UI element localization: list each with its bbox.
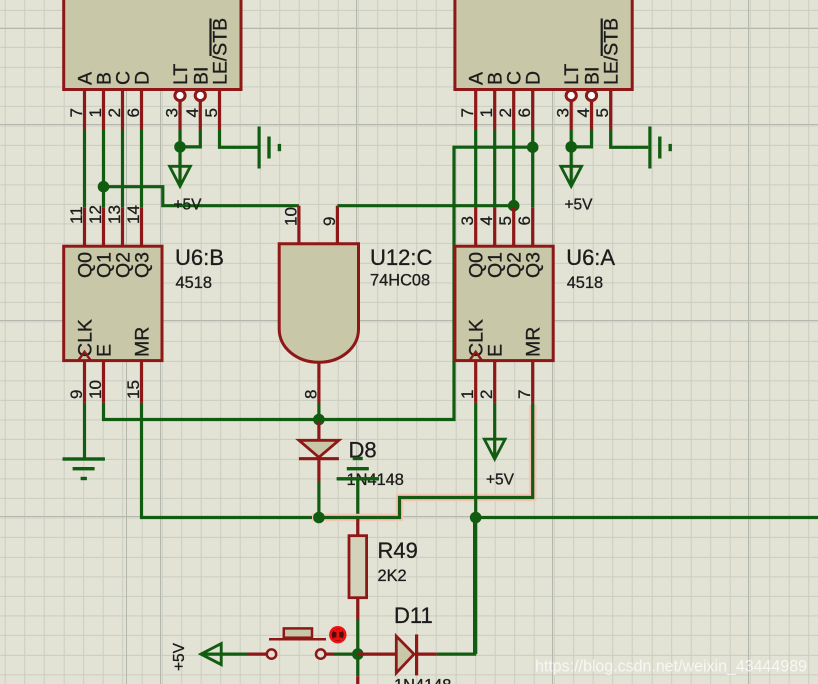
wire button to junction [333, 652, 358, 655]
svg-text:4: 4 [574, 108, 593, 117]
svg-text:8: 8 [301, 390, 320, 399]
svg-text:5: 5 [496, 216, 515, 225]
wire pin 5 to ground (left) [220, 130, 258, 148]
svg-text:LE/STB: LE/STB [601, 18, 623, 85]
wire pin 3 LT to +5V junction (right) [570, 130, 573, 147]
svg-text:7: 7 [458, 108, 477, 117]
svg-text:MR: MR [132, 327, 154, 357]
wire junction to right edge [476, 516, 818, 519]
push button component [248, 628, 333, 658]
svg-text:6: 6 [124, 108, 143, 117]
interactive actuator marker (red) [329, 626, 346, 643]
svg-text:4518: 4518 [176, 274, 212, 292]
svg-text:3: 3 [163, 108, 182, 117]
wire junction down to bottom edge [356, 654, 359, 684]
wire D11 cathode up to pin 1 net [437, 518, 475, 655]
junction on net Q2 (right) [508, 200, 520, 212]
svg-text:14: 14 [124, 205, 143, 224]
svg-text:+5V: +5V [565, 197, 594, 214]
ground symbol under U6:B pin 9 [63, 457, 105, 480]
pin number labels 11 12 13 14 (U6:B top pins) [67, 205, 143, 224]
diode D11 (horizontal, pointing right) [358, 634, 437, 675]
pin name labels A B C D LT BI LE/STB (right top chip) [466, 18, 623, 85]
pin name labels Q0 Q1 Q2 Q3 CLK E MR (U6:A) [466, 252, 545, 357]
clock input caret on U6:A [469, 352, 482, 361]
svg-text:12: 12 [86, 205, 105, 224]
pin number labels 9 10 15 (U6:B bottom) [67, 380, 143, 399]
svg-text:E: E [94, 344, 116, 357]
svg-text:2: 2 [477, 390, 496, 399]
wire pin 3 LT to +5V junction (left) [178, 130, 181, 147]
svg-text:6: 6 [515, 216, 534, 225]
svg-text:+5V: +5V [174, 197, 203, 214]
svg-text:6: 6 [515, 108, 534, 117]
pin number labels 3 4 5 6 (U6:A top pins) [458, 216, 534, 225]
svg-text:U6:B: U6:B [175, 245, 224, 270]
pin number labels 1 2 7 (U6:A bottom) [458, 390, 534, 399]
wire pins 7,1,2,6 of left top chip down to U6:B (nets A,B,C,D) [85, 130, 142, 247]
svg-text:U6:A: U6:A [566, 245, 615, 270]
svg-text:D11: D11 [394, 603, 433, 628]
diode D8 (vertical, anode up) [299, 421, 339, 518]
svg-text:LE/STB: LE/STB [210, 18, 232, 85]
highlighted wire D8 junction to U6:A pin 7 MR (pink halo) [312, 403, 533, 518]
power +5V symbol (left top) [170, 147, 191, 186]
svg-text:LT: LT [170, 64, 192, 85]
junction D8 cathode / MR nets [313, 512, 325, 524]
junction R49 / button / D11 [352, 648, 364, 660]
svg-text:2: 2 [105, 108, 124, 117]
svg-text:4518: 4518 [567, 274, 603, 292]
resistor R49 (vertical box) [349, 519, 367, 654]
svg-text:1N4148: 1N4148 [394, 677, 451, 684]
svg-text:10: 10 [281, 207, 300, 226]
svg-text:2K2: 2K2 [378, 567, 407, 585]
svg-text:13: 13 [105, 205, 124, 224]
svg-text:5: 5 [202, 108, 221, 117]
wire pin 9 of U6:B to ground [83, 403, 86, 458]
wire pin 4 BI to +5V junction (left) [180, 130, 200, 147]
wire gate pin 9 to right counter net Q2 junction [337, 204, 513, 207]
svg-text:+5V: +5V [486, 471, 515, 488]
counter U6:B body (4518) [64, 246, 162, 360]
7-seg decoder chip body (right, top, partially cut off) [455, 0, 632, 90]
svg-text:4: 4 [477, 216, 496, 225]
svg-text:MR: MR [523, 327, 545, 357]
svg-text:+5V: +5V [171, 642, 188, 671]
svg-text:https://blog.csdn.net/weixin_4: https://blog.csdn.net/weixin_43444989 [535, 658, 807, 676]
clock input caret on U6:B [78, 352, 91, 361]
AND gate U12:C input pin stubs 10 and 9 [297, 206, 300, 245]
pin stubs of left top chip (pins 7 1 2 6 3 4 5) [85, 90, 220, 130]
gate output pin 8 stub and wire [317, 362, 320, 419]
svg-text:Q3: Q3 [523, 252, 545, 278]
inversion bubbles on pins LT,BI (right top chip) [566, 90, 576, 100]
ground symbol (inverted) above MR net wire [337, 457, 379, 518]
pin stubs 1 2 7 of U6:A [476, 361, 533, 403]
svg-text:1: 1 [477, 108, 496, 117]
svg-text:10: 10 [86, 380, 105, 399]
svg-text:15: 15 [124, 380, 143, 399]
svg-text:LT: LT [561, 64, 583, 85]
wire pin 5 to ground (right) [611, 130, 649, 148]
svg-text:R49: R49 [378, 538, 418, 563]
svg-text:D: D [132, 71, 154, 85]
junction on net D of right chip [527, 141, 539, 153]
power +5V symbol (under U6:A pin 2) [484, 439, 505, 459]
svg-text:74HC08: 74HC08 [370, 272, 430, 290]
inversion bubbles on pins LT,BI (left top chip) [175, 90, 185, 100]
junction gate output / net E row [313, 414, 325, 426]
svg-text:1: 1 [458, 390, 477, 399]
svg-text:3: 3 [458, 216, 477, 225]
svg-text:11: 11 [67, 206, 86, 224]
power +5V symbol (right top) [561, 147, 582, 186]
svg-text:D: D [523, 71, 545, 85]
pin name labels A B C D LT BI LE/STB (left top chip) [75, 18, 232, 85]
ground symbol (left, rotated right) [258, 127, 282, 169]
wire junction down to D11 branch [474, 518, 477, 655]
ground symbol (right, rotated right) [648, 127, 672, 169]
junction pin 1 net / east wire / D11 branch [470, 512, 482, 524]
svg-text:7: 7 [515, 390, 534, 399]
counter U6:A body (4518) [455, 246, 553, 360]
wire pins 7,1,2,6 of right top chip down to U6:A [476, 130, 533, 247]
svg-text:5: 5 [593, 108, 612, 117]
svg-text:E: E [485, 344, 507, 357]
pin name labels Q0 Q1 Q2 Q3 CLK E MR (U6:B) [75, 252, 154, 357]
svg-text:Q3: Q3 [132, 252, 154, 278]
pin stubs of right top chip (pins 7 1 2 6 3 4 5) [476, 90, 611, 130]
svg-text:4: 4 [183, 108, 202, 117]
wire from net B junction to AND gate pin 10 [104, 187, 299, 206]
pin number labels 7 1 2 6 3 4 5 (right top chip) [458, 108, 612, 117]
wire U6:B pin 15 to D8 cathode junction [142, 403, 319, 518]
junction pins 3+4 (left) [174, 141, 186, 153]
wire U6:A pin 2 to +5V [493, 403, 496, 457]
wire U6:A pin 1 down to junction [474, 403, 477, 518]
svg-text:1: 1 [86, 108, 105, 117]
svg-text:U12:C: U12:C [370, 245, 432, 270]
power +5V symbol (bottom, pointing left) [201, 644, 248, 665]
junction pins 3+4 (right) [565, 141, 577, 153]
pin stubs 9 10 15 of U6:B [85, 361, 142, 403]
wire U6:B pin 10 across to U6:A net D junction (long L route) [104, 147, 533, 419]
svg-text:9: 9 [67, 390, 86, 399]
svg-text:9: 9 [320, 217, 339, 226]
AND gate U12:C body (74HC08, pointing down) [279, 244, 358, 362]
svg-text:3: 3 [554, 108, 573, 117]
wire pin 4 BI to +5V junction (right) [571, 130, 591, 147]
junction on net B at gate input tap [98, 181, 110, 193]
7-seg decoder chip body (left, top, partially cut off) [64, 0, 241, 90]
pin number labels 7 1 2 6 3 4 5 (left top chip) [67, 108, 221, 117]
svg-text:2: 2 [496, 108, 515, 117]
svg-text:7: 7 [67, 108, 86, 117]
